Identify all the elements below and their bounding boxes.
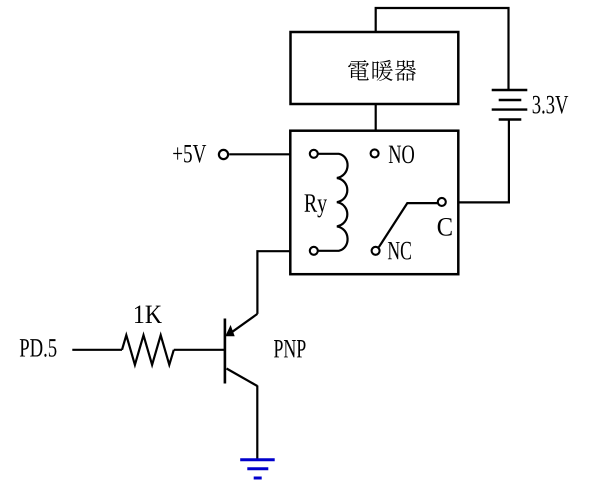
relay coil Ry: [318, 154, 347, 251]
transistor Q1 base bar: [224, 319, 227, 384]
relay switch arm: [379, 203, 438, 247]
battery value label 3.3V: [533, 96, 569, 114]
wire relay coil bottom to transistor emitter: [257, 251, 290, 314]
ground: [240, 460, 275, 478]
PD.5 label: [20, 339, 57, 357]
battery BT1: [492, 90, 528, 120]
relay C label: [438, 218, 452, 236]
wire heater top to battery positive: [376, 8, 509, 89]
relay NC label: [388, 242, 411, 260]
transistor Q1 emitter: [229, 314, 258, 334]
wire +5V terminal to relay coil: [229, 153, 290, 155]
wire heater bottom to relay NO terminal: [375, 104, 377, 132]
+5V label: [173, 145, 206, 163]
relay coil label Ry: [305, 194, 328, 217]
transistor Q1 emitter arrow PNP: [225, 325, 234, 336]
relay coil bottom terminal: [310, 247, 318, 255]
transistor type label PNP: [274, 340, 305, 357]
wire transistor collector to ground: [256, 386, 258, 460]
relay NO label: [389, 145, 414, 163]
relay C terminal: [438, 198, 446, 206]
wire PD.5 to resistor: [72, 349, 122, 351]
wire battery negative to relay C terminal: [446, 120, 509, 203]
transistor Q1 collector: [227, 369, 258, 387]
relay NC terminal: [372, 247, 380, 255]
wire resistor to transistor base: [174, 349, 224, 351]
+5V input terminal: [219, 150, 228, 159]
heater label electric heater CJK: [348, 60, 416, 81]
relay coil top terminal: [310, 150, 318, 158]
heater box: [291, 32, 459, 104]
resistor value label 1K: [135, 306, 162, 323]
relay box U1: [290, 131, 458, 275]
relay NO terminal: [371, 149, 379, 157]
resistor R1: [122, 335, 174, 365]
